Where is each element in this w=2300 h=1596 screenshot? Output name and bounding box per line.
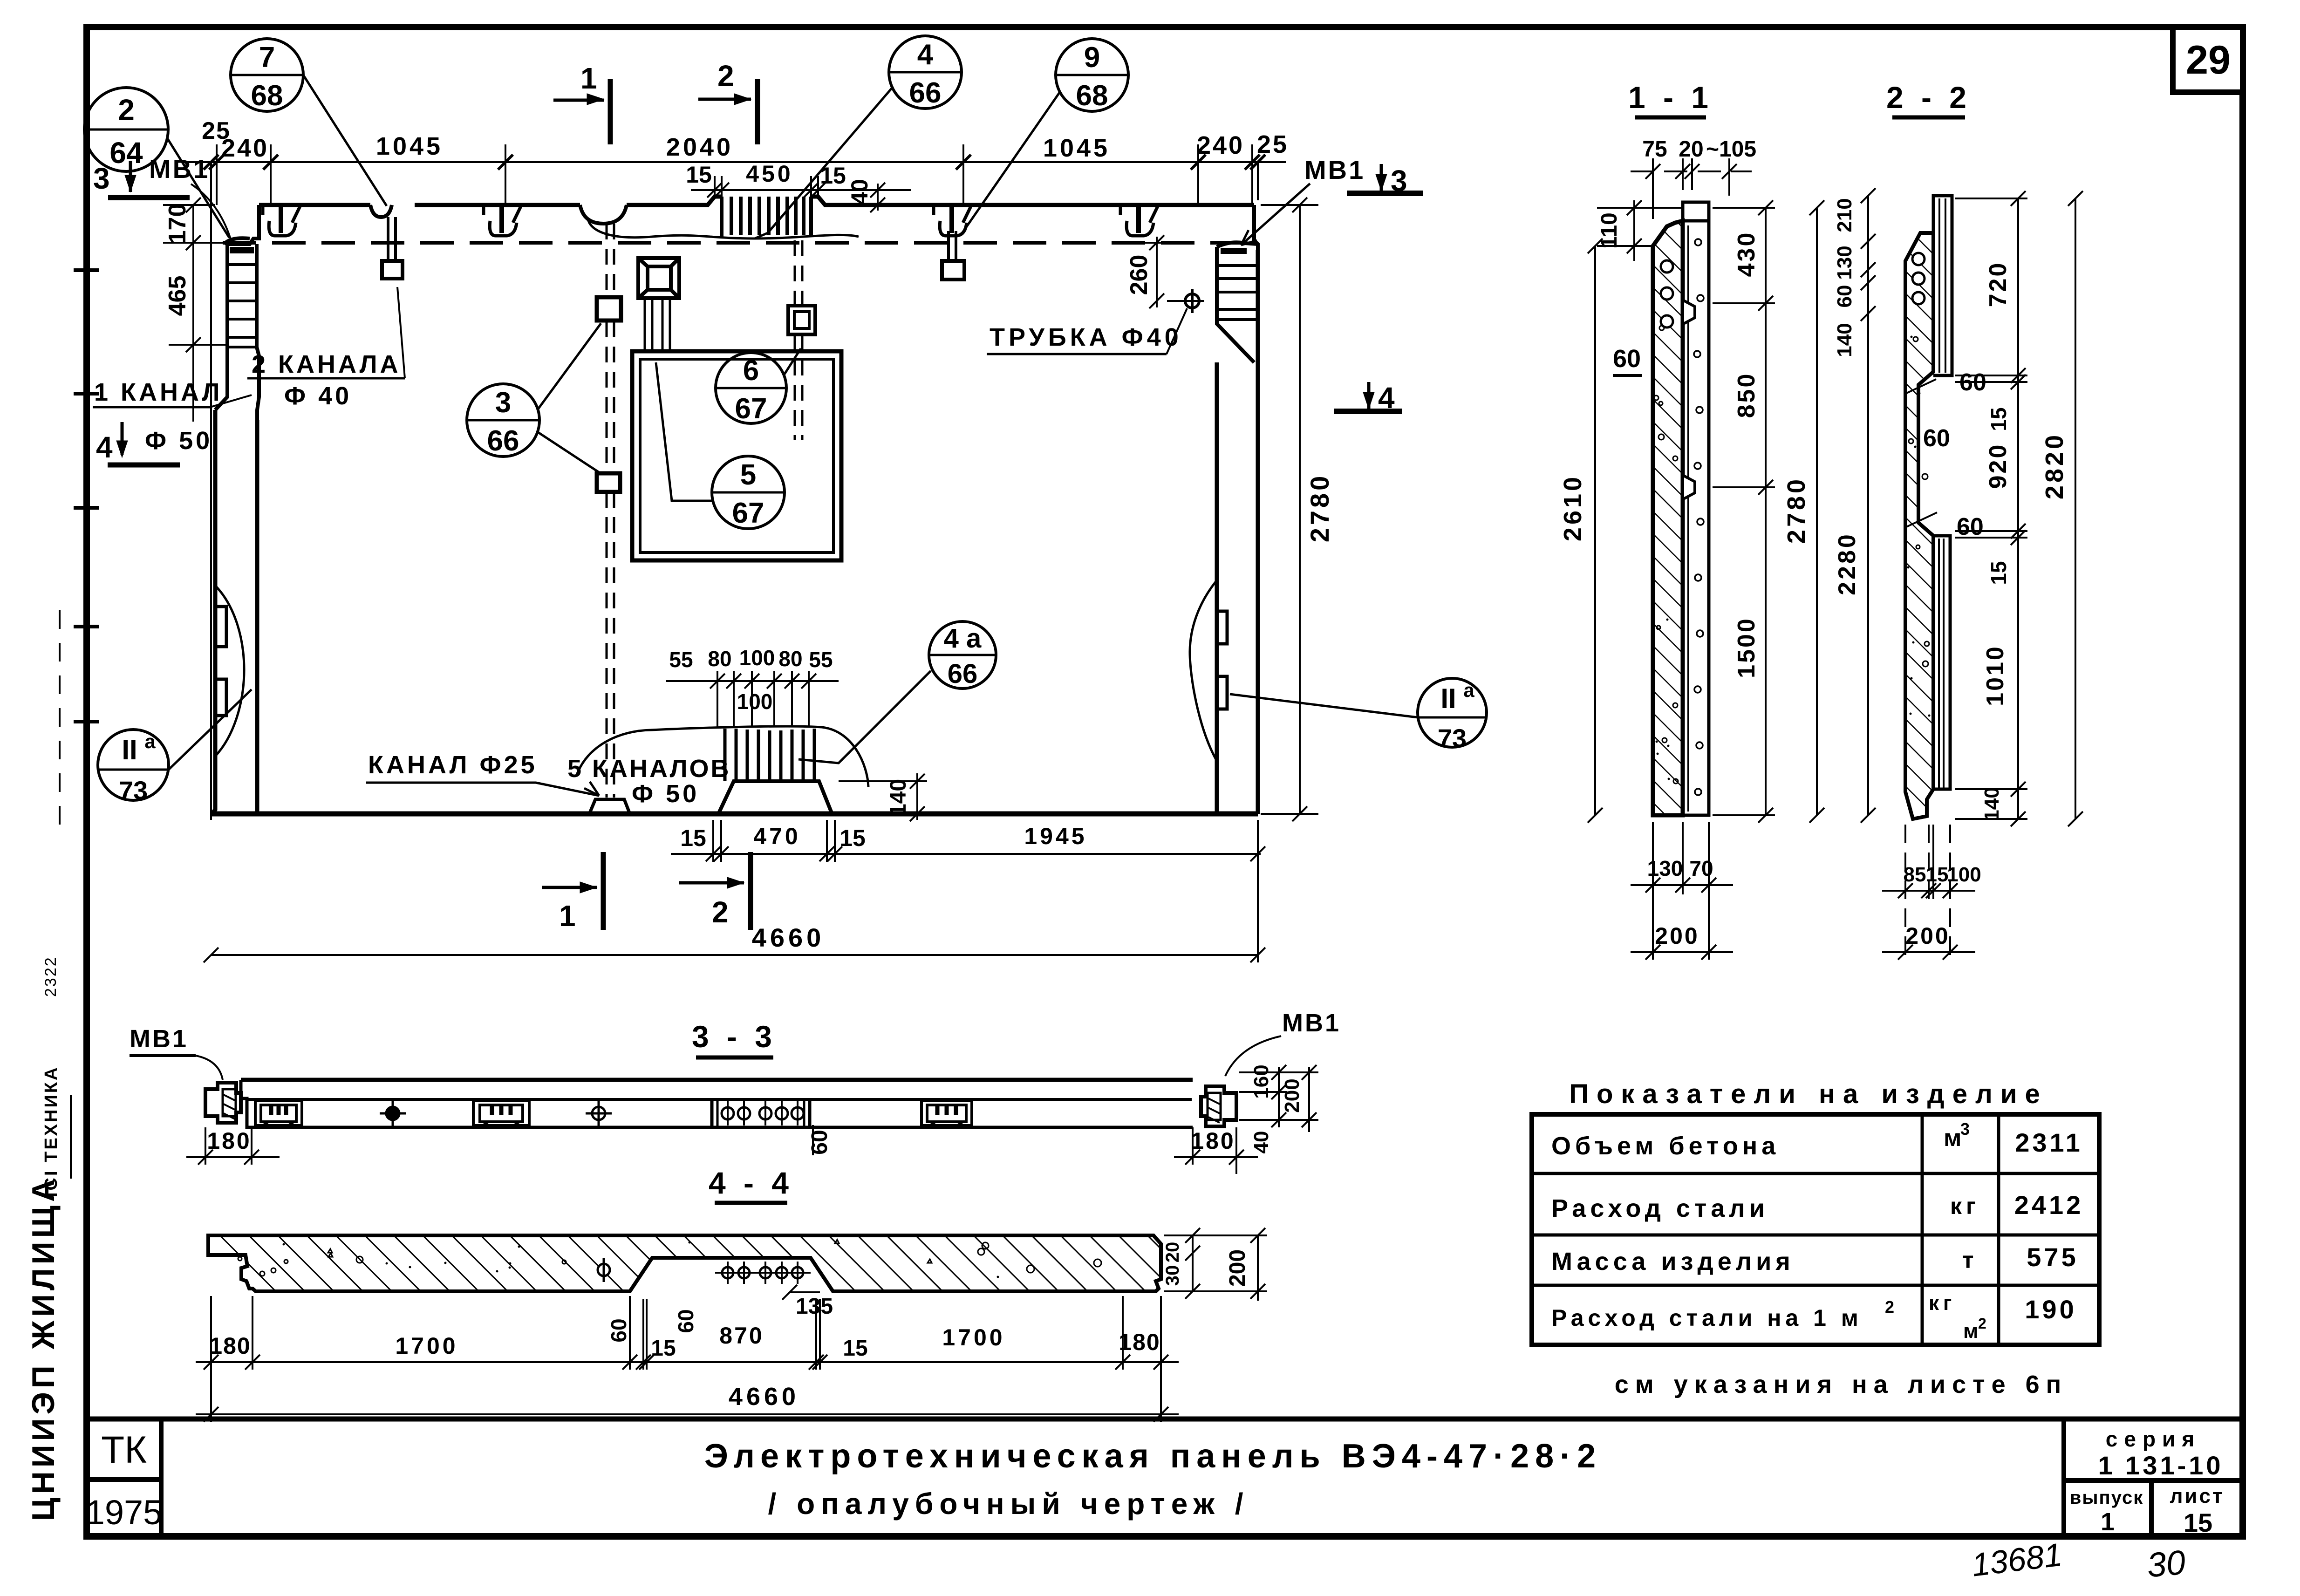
svg-text:1045: 1045 [376, 132, 443, 160]
svg-text:2040: 2040 [666, 133, 733, 161]
right side dims (4-4) 20/30/200 [1164, 1228, 1267, 1301]
svg-text:1: 1 [580, 61, 597, 95]
svg-text:5 КАНАЛОВ: 5 КАНАЛОВ [567, 755, 731, 783]
svg-text:80: 80 [778, 647, 802, 671]
bottom pedestal (приямок) [718, 781, 832, 814]
svg-text:ТРУБКА Ф40: ТРУБКА Ф40 [990, 323, 1182, 351]
callout IIa/73 left [98, 689, 252, 805]
svg-text:15: 15 [1926, 863, 1949, 886]
embedded box 1 [255, 1100, 302, 1125]
svg-text:470: 470 [753, 823, 800, 849]
svg-text:15: 15 [843, 1336, 867, 1361]
svg-text:29: 29 [2186, 38, 2231, 82]
section mark 2 top [698, 79, 758, 144]
svg-text:130: 130 [1647, 856, 1683, 880]
svg-text:240: 240 [221, 134, 269, 162]
channel 1 dashed pair [607, 224, 614, 798]
svg-text:80: 80 [708, 647, 731, 671]
key trapezoid 1 on board [1683, 300, 1695, 324]
callout 9/68 [961, 39, 1128, 235]
svg-text:2610: 2610 [1559, 474, 1587, 541]
small circle anchor in band [598, 1258, 610, 1282]
svg-text:2311: 2311 [2015, 1128, 2083, 1157]
svg-text:60: 60 [1613, 345, 1641, 373]
svg-text:2322: 2322 [42, 956, 60, 997]
svg-text:20: 20 [1679, 137, 1703, 162]
svg-text:465: 465 [164, 276, 191, 316]
svg-text:1010: 1010 [1982, 645, 2009, 706]
трубка Ф40 circle [1167, 289, 1204, 313]
svg-text:240: 240 [1197, 131, 1244, 159]
callout IIa/73 right [1230, 678, 1487, 753]
svg-text:т: т [1962, 1247, 1978, 1273]
key trapezoid 2 on board [1683, 475, 1695, 499]
svg-text:/ опалубочный чертеж /: / опалубочный чертеж / [768, 1487, 1249, 1521]
hatched band 4-4 [208, 1235, 1161, 1291]
svg-text:2 - 2: 2 - 2 [1886, 80, 1971, 115]
left dim 2610 [1588, 239, 1603, 823]
svg-text:180: 180 [209, 1333, 251, 1359]
svg-text:200: 200 [1655, 923, 1699, 949]
svg-text:4660: 4660 [752, 923, 825, 952]
svg-text:15: 15 [651, 1336, 676, 1361]
svg-text:2: 2 [1885, 1297, 1898, 1316]
svg-text:1045: 1045 [1043, 134, 1110, 162]
svg-text:серия: серия [2106, 1427, 2201, 1451]
svg-text:200: 200 [1281, 1078, 1304, 1112]
small pedestal for канал Ф25 [589, 799, 630, 814]
bottom dims 85/15/100 and 200 [1882, 825, 1975, 960]
svg-text:2412: 2412 [2014, 1190, 2084, 1220]
svg-text:100: 100 [1947, 863, 1981, 886]
svg-text:85: 85 [1904, 863, 1926, 886]
svg-text:3 - 3: 3 - 3 [692, 1019, 777, 1054]
bottom dim line 4660 [204, 820, 1265, 962]
panel right edge [1217, 250, 1258, 814]
callout 4a/66 [799, 621, 996, 763]
svg-text:9: 9 [1084, 41, 1100, 74]
handwritten numbers below frame [1970, 1536, 2187, 1585]
strip body 3-3 [241, 1080, 1193, 1127]
svg-text:110: 110 [1597, 212, 1622, 248]
svg-text:4: 4 [96, 430, 113, 464]
svg-text:МВ1: МВ1 [1282, 1009, 1341, 1037]
svg-text:Показатели на изделие: Показатели на изделие [1569, 1079, 2047, 1109]
svg-text:75: 75 [1642, 137, 1667, 162]
section mark 2 bottom [679, 852, 751, 930]
pyramid outlet box [638, 258, 679, 298]
svg-text:6: 6 [743, 355, 759, 387]
svg-text:15: 15 [1986, 407, 2011, 431]
right dim chain 720/15/920/15/1010/140 [1955, 191, 2027, 826]
svg-text:1: 1 [559, 899, 576, 933]
svg-text:73: 73 [119, 776, 148, 805]
svg-text:55: 55 [669, 648, 693, 672]
top dims 75 20 ~105 [1631, 158, 1752, 219]
callout 7/68 [231, 39, 387, 206]
right edge key rects (IIa joint) [1216, 611, 1227, 709]
dashed level line [223, 241, 1254, 245]
svg-text:140: 140 [886, 779, 911, 816]
svg-text:920: 920 [1985, 443, 2012, 489]
callout 2/64 [84, 88, 229, 238]
sheet number box 29 [2173, 27, 2243, 92]
right vertical dim 2780 [1261, 198, 1318, 821]
svg-text:2: 2 [118, 93, 135, 127]
svg-text:30: 30 [2145, 1543, 2187, 1585]
comb sub-dimension 15/450/15 and 40 [691, 176, 911, 212]
svg-text:3: 3 [1960, 1119, 1974, 1139]
svg-text:60: 60 [1923, 425, 1950, 452]
svg-text:850: 850 [1733, 372, 1760, 418]
top notch trapezoid 4 [1120, 205, 1158, 236]
svg-text:1 - 1: 1 - 1 [1628, 80, 1713, 115]
svg-text:73: 73 [1438, 723, 1467, 753]
section mark 1 bottom [542, 852, 603, 930]
panel outline: top edge with notches [259, 197, 1254, 205]
svg-text:2: 2 [717, 59, 734, 93]
freehand cloud around bottom comb [576, 726, 868, 787]
svg-text:1945: 1945 [1024, 823, 1087, 849]
concrete strip (hatched), stepped profile [1905, 233, 1933, 819]
svg-text:2780: 2780 [1305, 473, 1334, 543]
svg-text:67: 67 [735, 393, 767, 425]
svg-text:40: 40 [1250, 1131, 1273, 1154]
svg-text:870: 870 [719, 1323, 764, 1349]
svg-text:5: 5 [740, 459, 756, 491]
svg-text:4660: 4660 [729, 1383, 799, 1411]
svg-text:180: 180 [207, 1128, 251, 1154]
left edge key rects (IIa joint) [216, 607, 226, 716]
svg-text:3: 3 [93, 162, 110, 195]
svg-text:II: II [1440, 683, 1456, 714]
svg-text:2780: 2780 [1782, 477, 1810, 544]
svg-text:Ф 50: Ф 50 [145, 427, 212, 455]
svg-text:210: 210 [1833, 198, 1856, 232]
svg-text:64: 64 [109, 136, 143, 170]
svg-text:140: 140 [1980, 787, 2003, 821]
svg-text:Ф 40: Ф 40 [284, 382, 352, 410]
bottom dim line 15/470/15/1945 [671, 820, 1265, 862]
svg-text:4 а: 4 а [944, 623, 982, 654]
svg-text:160: 160 [1250, 1064, 1273, 1098]
svg-text:4: 4 [1378, 381, 1395, 415]
svg-text:а: а [144, 730, 156, 752]
svg-text:1500: 1500 [1733, 617, 1760, 678]
svg-text:25: 25 [1257, 130, 1289, 158]
svg-text:575: 575 [2027, 1242, 2078, 1272]
loop anchor square left [382, 261, 403, 279]
right edge bulge freehand arc [1190, 581, 1216, 759]
freehand cloud boundary under comb [588, 219, 859, 239]
section mark 1 top [553, 79, 610, 144]
svg-text:55: 55 [809, 648, 833, 672]
svg-text:см указания на листе 6п: см указания на листе 6п [1615, 1371, 2068, 1398]
svg-text:60: 60 [1957, 513, 1984, 540]
svg-text:60: 60 [607, 1318, 631, 1342]
svg-text:Расход стали на 1 м: Расход стали на 1 м [1551, 1305, 1863, 1331]
title block [87, 1419, 2243, 1537]
bottom dim line 180/1700/60/15/870/15/1700/180 [196, 1296, 1179, 1422]
svg-text:66: 66 [487, 425, 519, 457]
svg-text:МВ1: МВ1 [1304, 155, 1365, 184]
svg-text:30: 30 [1162, 1265, 1183, 1286]
right vertical dim 260 (dashed line to trubka) [1127, 235, 1183, 308]
svg-text:170: 170 [164, 204, 191, 244]
svg-text:190: 190 [2025, 1295, 2076, 1324]
bottom channel comb (5 каналов Ф50) [725, 729, 814, 781]
svg-text:20: 20 [1162, 1242, 1183, 1263]
svg-text:Расход стали: Расход стали [1551, 1194, 1769, 1222]
svg-text:70: 70 [1689, 856, 1713, 880]
top notch trapezoid 2 [484, 205, 521, 236]
left margin rotated stamps [26, 270, 99, 1521]
dim 135 (4-4) [782, 1285, 820, 1300]
anchor circle 2 [586, 1100, 612, 1127]
svg-text:ЦНИИЭП ЖИЛИЩА: ЦНИИЭП ЖИЛИЩА [26, 1175, 61, 1521]
svg-text:66: 66 [948, 659, 978, 689]
section mark 4 right [1334, 382, 1402, 411]
svg-text:68: 68 [1076, 80, 1108, 112]
svg-text:Электротехническая панель ВЭ: Электротехническая панель ВЭ4-47·28·2 [704, 1438, 1602, 1475]
svg-text:66: 66 [909, 77, 942, 109]
svg-text:180: 180 [1191, 1128, 1235, 1154]
loop anchor square right [942, 261, 964, 280]
svg-text:15: 15 [2184, 1508, 2212, 1537]
svg-text:1 КАНАЛ: 1 КАНАЛ [94, 378, 223, 406]
callout 3/66 [467, 323, 602, 474]
svg-text:15: 15 [1986, 561, 2011, 585]
svg-text:КАНАЛ Ф25: КАНАЛ Ф25 [368, 751, 538, 779]
svg-text:3: 3 [495, 387, 511, 419]
svg-text:ТК: ТК [101, 1429, 147, 1471]
top notch trapezoid 1 [263, 205, 300, 236]
svg-text:1975: 1975 [86, 1493, 163, 1532]
channel circles in section 2-2 [1912, 253, 1925, 304]
svg-text:100: 100 [737, 689, 773, 714]
svg-text:Ф 50: Ф 50 [632, 780, 699, 808]
svg-text:68: 68 [251, 80, 283, 112]
svg-text:720: 720 [1985, 261, 2012, 307]
svg-text:2820: 2820 [2041, 432, 2068, 499]
svg-text:60: 60 [674, 1309, 698, 1333]
junction box C on channel 2 [788, 306, 815, 334]
callout 6/67 [716, 348, 801, 425]
svg-text:МВ1: МВ1 [130, 1025, 188, 1053]
callout 5/67 [656, 362, 785, 529]
svg-text:15: 15 [680, 825, 706, 851]
svg-text:180: 180 [1119, 1329, 1160, 1355]
svg-text:60: 60 [807, 1130, 832, 1154]
svg-text:Объем бетона: Объем бетона [1551, 1132, 1780, 1160]
left dim 110 [1597, 200, 1683, 261]
half-round notch with hanging loop left [370, 205, 392, 217]
loop pin under half-round notch [388, 217, 396, 261]
svg-text:2: 2 [712, 895, 729, 929]
channel 2 dashed pair [795, 240, 802, 440]
svg-text:15: 15 [839, 825, 866, 851]
svg-text:МВ1: МВ1 [149, 154, 210, 184]
svg-text:2 КАНАЛА: 2 КАНАЛА [252, 350, 401, 378]
60 labels with ticks [1904, 379, 1937, 527]
svg-text:кг: кг [1950, 1193, 1980, 1219]
formwork dots [1694, 239, 1704, 795]
svg-text:~105: ~105 [1706, 137, 1756, 162]
5 channel holes (4-4) [715, 1262, 811, 1284]
right edge anchor block MB1 [1217, 205, 1258, 362]
svg-text:140: 140 [1833, 323, 1856, 357]
svg-text:260: 260 [1126, 255, 1153, 295]
svg-text:4: 4 [917, 39, 934, 71]
svg-text:а: а [1463, 679, 1474, 701]
svg-text:1700: 1700 [395, 1333, 458, 1359]
svg-text:1: 1 [2101, 1508, 2115, 1536]
5 channel holes group [712, 1100, 810, 1127]
dim 180 right (3-3) [1174, 1127, 1258, 1174]
МВ1 anchor block right end [1201, 1086, 1236, 1126]
svg-text:2280: 2280 [1834, 532, 1861, 595]
formwork board strip [1683, 202, 1709, 815]
right dim 2780 [1809, 200, 1824, 823]
section mark 4 left [116, 422, 128, 457]
svg-text:450: 450 [746, 161, 793, 187]
top dimension line 25/240/1045/2040/1045/240/25 [184, 144, 1286, 820]
top channel comb (5 каналов riser) [722, 197, 811, 237]
formwork board top part (2-2) [1933, 196, 1952, 375]
svg-text:3: 3 [1391, 164, 1407, 198]
bottom pedestal dims 55/80/100/80/55 and 100, 140 [666, 671, 839, 727]
svg-text:4 - 4: 4 - 4 [709, 1166, 793, 1200]
embedded box 2 [473, 1100, 529, 1125]
right dim chain 430/850/1500 [1713, 200, 1775, 823]
svg-text:200: 200 [1225, 1249, 1250, 1287]
panel left edge [212, 410, 257, 814]
anchor circle 1 [380, 1100, 406, 1127]
formwork board bottom part (2-2) [1933, 536, 1950, 789]
svg-text:200: 200 [1905, 923, 1950, 949]
concrete strip (hatched) [1653, 221, 1683, 815]
svg-text:430: 430 [1733, 231, 1760, 277]
svg-text:135: 135 [796, 1294, 833, 1319]
svg-text:7: 7 [259, 41, 275, 74]
svg-text:2: 2 [1978, 1315, 1991, 1332]
svg-text:100: 100 [739, 646, 775, 670]
svg-text:60: 60 [1833, 285, 1856, 308]
top notch trapezoid 3 (with hanging loop) [934, 205, 971, 236]
junction box A on channel 1 [597, 297, 621, 321]
channel circles in section [1661, 260, 1673, 327]
left vertical dims 170 / 465 [163, 198, 227, 422]
svg-text:лист: лист [2170, 1485, 2224, 1507]
left edge anchor block MB1 [215, 205, 259, 420]
МВ1 anchor block left end [205, 1083, 241, 1123]
dim 140 vertical at pedestal [839, 773, 927, 821]
left dim column 210/130/60/140 [1861, 188, 1876, 564]
embedded box 3 [921, 1100, 972, 1125]
dim 2280 [1861, 321, 1876, 823]
svg-text:II: II [122, 734, 137, 765]
left edge bulge freehand arc [216, 586, 244, 756]
svg-text:15: 15 [820, 163, 846, 189]
riser lines from pyramid box to niche [645, 299, 670, 349]
right side dims 160/200/40 (3-3) [1239, 1065, 1318, 1132]
svg-text:67: 67 [732, 497, 764, 529]
svg-text:ІСІ ТЕХНИКА: ІСІ ТЕХНИКА [41, 1066, 61, 1197]
dim 180 left (3-3) [186, 1127, 280, 1165]
svg-text:130: 130 [1833, 246, 1856, 280]
panel bottom edge [212, 812, 1258, 817]
callout 4/66 [755, 36, 962, 239]
svg-text:15: 15 [686, 162, 712, 188]
junction box B on channel 1 [597, 473, 620, 492]
section mark 3 left [108, 161, 190, 198]
hanging loop under notch 3 [949, 231, 956, 261]
half-round notch (channel 1 exit) [580, 205, 627, 224]
bottom dims 130/70 and 200 [1631, 822, 1733, 960]
svg-text:кг: кг [1929, 1292, 1956, 1315]
svg-text:Масса изделия: Масса изделия [1551, 1248, 1795, 1275]
svg-text:1700: 1700 [942, 1324, 1005, 1350]
svg-text:40: 40 [846, 179, 873, 205]
dim 2820 [2068, 191, 2083, 826]
bottom dim 4660 (4-4) [196, 1407, 1179, 1422]
niche box (electrical cabinet recess) [632, 351, 841, 560]
section mark 3 right [1347, 164, 1423, 193]
svg-text:1 131-10: 1 131-10 [2098, 1451, 2223, 1480]
svg-text:выпуск: выпуск [2070, 1487, 2143, 1508]
